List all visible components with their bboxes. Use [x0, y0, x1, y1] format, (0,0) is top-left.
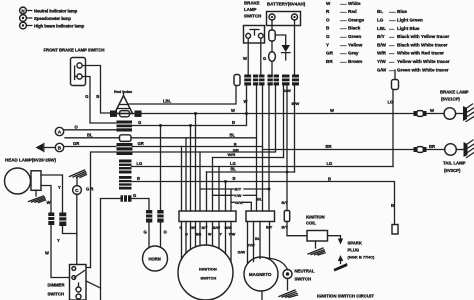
connector c6 [292, 75, 299, 86]
connector pill at triangle base [120, 111, 130, 117]
svg-text:----: ---- [389, 34, 395, 39]
connector right of triangle base [135, 111, 142, 117]
svg-text:B: B [233, 176, 236, 181]
svg-text:BR: BR [326, 144, 332, 149]
svg-text:Y/W: Y/W [234, 193, 242, 198]
svg-text:W/R: W/R [228, 152, 236, 157]
wire color code legend column 1 [326, 1, 365, 64]
brake lamp bulb [444, 108, 456, 120]
node dot B/Y-c4 [268, 188, 271, 191]
svg-text:B/Y: B/Y [202, 226, 209, 230]
lamp head lamp 6V25-25W [5, 158, 57, 195]
svg-text:B: B [328, 176, 331, 181]
wire GR row right [133, 146, 263, 148]
svg-text:Blue: Blue [397, 9, 407, 14]
svg-text:BL: BL [230, 132, 236, 137]
svg-text:W: W [208, 233, 212, 237]
fuse F1 [269, 30, 275, 41]
svg-text:IGNITION: IGNITION [199, 267, 217, 272]
svg-text:Black: Black [348, 26, 361, 31]
lamp speedometer legend symbol [20, 15, 72, 22]
wire arc magneto to neutral switch [267, 258, 288, 270]
svg-text:LG: LG [388, 100, 394, 105]
spark plug label [348, 241, 376, 260]
svg-text:O: O [164, 230, 168, 235]
svg-text:Yellow with White tracer: Yellow with White tracer [397, 59, 450, 64]
wire horn B branch [160, 126, 162, 211]
horn body [143, 246, 168, 271]
wire diode branch [275, 35, 286, 45]
ignition switch body [178, 245, 233, 300]
spark plug arrow and ground [334, 255, 348, 272]
connector W headlamp lead [48, 213, 54, 226]
wire trunk v3 [190, 126, 192, 212]
wire B from front brake switch to red-index row [82, 66, 110, 114]
svg-text:B: B [137, 176, 140, 181]
svg-text:BATTERY(6V4AH): BATTERY(6V4AH) [267, 1, 306, 6]
svg-text:B/W: B/W [377, 42, 387, 47]
connector horn B [157, 210, 163, 223]
node dot B-trunk [224, 180, 227, 183]
svg-text:SWITCH: SWITCH [48, 292, 65, 297]
wire G/W row [231, 202, 251, 211]
svg-text:B/Y: B/Y [266, 226, 273, 230]
svg-text:W: W [243, 56, 247, 61]
svg-text:O: O [326, 17, 330, 22]
svg-text:R: R [180, 226, 183, 230]
wire color code legend column 2 [377, 9, 450, 72]
svg-text:BR: BR [429, 144, 435, 149]
svg-text:-----: ----- [340, 26, 347, 31]
svg-text:Y/W: Y/W [377, 59, 386, 64]
svg-text:G: G [85, 94, 88, 99]
connector c4 double [268, 75, 280, 86]
lamp high beam indicator symbol [36, 144, 56, 152]
svg-text:W: W [430, 108, 434, 113]
svg-text:Y: Y [57, 238, 60, 243]
wire trunk v8 [218, 167, 220, 212]
connector bar ignition switch [179, 211, 236, 222]
wire LG vertical right [392, 90, 394, 167]
svg-text:(NGK B 77HC): (NGK B 77HC) [348, 255, 376, 260]
wire W to brake lamp [427, 113, 445, 115]
pin labels row 2 [185, 233, 236, 237]
ignition coil T1 [306, 215, 328, 242]
svg-text:W: W [231, 108, 235, 113]
svg-text:B: B [96, 94, 99, 99]
svg-text:Speedometer lamp: Speedometer lamp [34, 16, 71, 21]
wire trunk v10 [230, 189, 232, 211]
connector W brake lamp [414, 111, 427, 117]
svg-text:Y: Y [58, 185, 61, 190]
svg-text:Gray: Gray [348, 51, 359, 56]
svg-text:High beam indicator lamp: High beam indicator lamp [34, 23, 85, 28]
wire G row left [101, 199, 121, 300]
svg-text:LAMP: LAMP [244, 7, 257, 12]
connector BL [120, 135, 132, 142]
connector left of triangle base [110, 111, 117, 117]
svg-text:LG: LG [377, 18, 384, 23]
svg-text:R: R [326, 9, 330, 14]
svg-text:O: O [75, 125, 79, 130]
svg-text:Green: Green [348, 34, 361, 39]
wire fuse to oval [271, 41, 273, 52]
svg-text:TAIL LAMP: TAIL LAMP [443, 161, 466, 166]
svg-text:(6V3CP): (6V3CP) [444, 168, 461, 173]
svg-text:HORN: HORN [149, 257, 161, 262]
connector B striped [119, 176, 132, 190]
svg-text:Orange: Orange [348, 17, 365, 22]
wire coil HT lead with arrow [328, 236, 344, 245]
svg-text:SWITCH: SWITCH [295, 277, 312, 282]
svg-text:BL: BL [377, 9, 383, 14]
svg-text:Y: Y [220, 233, 223, 237]
node B circled [55, 143, 63, 151]
wire c5L down [283, 86, 285, 158]
svg-text:BL: BL [87, 133, 93, 138]
node dot W-c2 [245, 112, 248, 115]
connector G horizontal [121, 195, 132, 201]
svg-text:G: G [263, 56, 266, 61]
svg-text:B/W: B/W [292, 101, 300, 106]
svg-text:B: B [234, 141, 237, 146]
wire dimmer lower right lead [86, 281, 101, 288]
wire trunk v4 [195, 114, 197, 212]
svg-text:DIMMER: DIMMER [48, 283, 65, 288]
svg-text:O: O [185, 233, 188, 237]
svg-text:Y/W: Y/W [229, 233, 236, 237]
svg-text:G: G [138, 120, 141, 125]
connector LG striped [119, 160, 132, 174]
svg-text:Red: Red [348, 9, 357, 14]
wire trunk v5 [199, 152, 201, 211]
wire G from front brake switch to connector [82, 77, 116, 124]
svg-text:BL: BL [257, 197, 263, 202]
wire LG bus [132, 166, 394, 168]
svg-text:BRAKE LAMP: BRAKE LAMP [440, 90, 469, 95]
svg-text:B: B [232, 120, 235, 125]
svg-text:NEUTRAL: NEUTRAL [295, 269, 315, 274]
svg-text:-----: ----- [389, 18, 396, 23]
svg-text:W/R: W/R [377, 51, 387, 56]
connector c1 [234, 75, 240, 86]
svg-text:-----: ----- [340, 34, 347, 39]
wire row172 [207, 171, 295, 173]
fuse holder oval [269, 52, 276, 62]
svg-text:A: A [58, 130, 62, 135]
svg-text:B/Y: B/Y [235, 187, 242, 192]
magneto pin wires below bar [248, 222, 270, 264]
svg-text:GR: GR [73, 141, 79, 146]
svg-text:C: C [75, 188, 79, 193]
red index marker triangle [114, 90, 133, 114]
svg-text:-----: ----- [340, 1, 347, 6]
ground neutral switch [279, 279, 298, 298]
pin labels row 1 [180, 226, 233, 230]
connector GR double [117, 143, 133, 155]
svg-text:----: ---- [389, 42, 395, 47]
svg-text:B/Y: B/Y [282, 201, 289, 205]
svg-text:HEAD LAMP(6V25·25W): HEAD LAMP(6V25·25W) [5, 158, 57, 163]
ground above C [70, 170, 87, 186]
wire battery positive lead [294, 20, 296, 75]
svg-text:-----: ----- [340, 17, 347, 22]
connector c2 [244, 75, 251, 86]
node dot B-horn branch [159, 124, 162, 127]
wire B bus [132, 182, 395, 225]
svg-text:Green with White tracer: Green with White tracer [397, 67, 449, 72]
svg-text:BL: BL [231, 167, 237, 172]
wire c6 down [294, 86, 296, 173]
svg-text:SWITCH: SWITCH [244, 13, 261, 18]
svg-text:-----: ----- [340, 42, 347, 47]
fuse F2 ignition [284, 211, 289, 222]
svg-text:White with Red tracer: White with Red tracer [397, 51, 444, 56]
switch S1 front brake lamp switch [44, 48, 105, 86]
switch S2 brake lamp switch [244, 1, 265, 43]
wire battery negative lead [271, 20, 273, 30]
svg-text:BR: BR [196, 233, 202, 237]
svg-text:BRAKE: BRAKE [244, 1, 260, 6]
svg-text:Neutral indicator lamp: Neutral indicator lamp [34, 8, 78, 13]
connector Y headlamp lead [59, 213, 66, 227]
svg-text:Black with Yellow tracer: Black with Yellow tracer [397, 34, 449, 39]
ground ignition coil [308, 241, 325, 255]
svg-text:IGNITION: IGNITION [306, 215, 325, 220]
svg-text:B/W: B/W [213, 226, 221, 230]
svg-text:N: N [21, 8, 24, 13]
svg-text:-----: ----- [340, 9, 347, 14]
svg-text:G/W: G/W [235, 200, 243, 205]
connector BR tail lamp [414, 147, 427, 153]
svg-text:LG: LG [137, 161, 143, 166]
neutral switch body [283, 269, 315, 282]
wire B/Y row [200, 188, 269, 190]
svg-text:----: ---- [389, 59, 395, 64]
dimmer switch body [48, 265, 87, 300]
svg-text:G/W: G/W [377, 67, 387, 72]
lamp N neutral indicator legend symbol [20, 7, 78, 14]
node dot B-trunk [189, 124, 192, 127]
svg-text:Black with White tracer: Black with White tracer [397, 42, 448, 47]
wire fuse to ignition coil [287, 222, 307, 236]
svg-text:PLUG: PLUG [348, 248, 360, 253]
lamp high beam indicator legend symbol [20, 22, 85, 29]
wire GR from B to connector [64, 146, 117, 148]
svg-text:BL: BL [255, 237, 261, 241]
wire W bus [111, 113, 416, 115]
svg-text:B/Y: B/Y [377, 34, 385, 39]
connector O-G double [117, 121, 133, 132]
svg-text:B: B [58, 146, 62, 151]
battery BT1 6V4AH [267, 1, 306, 25]
wire dimmer right lead [86, 267, 91, 269]
wire W/R row [213, 157, 284, 159]
wire Y lead joins C wire [63, 226, 77, 265]
wire W from head lamp to dimmer [41, 186, 51, 213]
svg-text:FRONT BRAKE LAMP SWITCH: FRONT BRAKE LAMP SWITCH [44, 48, 105, 53]
svg-text:GR: GR [326, 51, 334, 56]
node A circled [55, 127, 63, 135]
svg-text:----: ---- [389, 67, 395, 72]
svg-text:G/W: G/W [225, 226, 233, 230]
wire LBL bus [128, 86, 236, 105]
svg-text:LBL: LBL [163, 99, 172, 104]
svg-text:W: W [326, 1, 331, 6]
svg-text:-----: ----- [340, 59, 347, 64]
wire Y from head lamp to dimmer [41, 175, 63, 213]
lamp tail lamp 6V3CP label [443, 161, 466, 174]
tail lamp bulb [445, 144, 457, 156]
wire c5R down to fuse [286, 86, 288, 211]
wire trunk v9 [225, 182, 227, 212]
wire O from A to connector [64, 129, 117, 131]
svg-text:Y/W: Y/W [248, 244, 256, 248]
svg-text:BR: BR [326, 59, 333, 64]
wire oval to connector [271, 61, 273, 74]
wire G row right [132, 199, 150, 211]
svg-text:W: W [330, 108, 334, 113]
wire BR row to tail lamp [263, 149, 416, 151]
svg-text:W: W [45, 251, 49, 256]
wire BL row left [65, 137, 120, 139]
svg-text:G: G [133, 193, 136, 198]
wire trunk v2 [185, 138, 187, 211]
magneto body [244, 257, 278, 291]
svg-text:LBL: LBL [377, 26, 386, 31]
svg-text:B: B [326, 26, 330, 31]
ground tail lamp [456, 140, 474, 158]
node dot W-trunk [194, 112, 197, 115]
connector c5 [282, 75, 290, 86]
diode D1 [282, 45, 291, 60]
svg-text:Light Blue: Light Blue [397, 26, 420, 31]
svg-text:B: B [391, 203, 394, 208]
wire trunk v6 [206, 172, 208, 211]
wire from C down [76, 194, 78, 235]
svg-text:MAGNETO: MAGNETO [249, 272, 272, 277]
svg-text:-----: ----- [389, 9, 396, 14]
connector bar magneto [246, 211, 275, 222]
svg-text:(6V21CP): (6V21CP) [441, 97, 460, 102]
svg-text:G/W: G/W [238, 251, 246, 255]
wire W lead to dimmer [51, 225, 70, 278]
wire trunk v7 [212, 158, 214, 212]
svg-text:W: W [47, 200, 51, 205]
connector B end [392, 225, 398, 235]
wire BR to tail lamp [427, 149, 445, 151]
svg-text:LG: LG [327, 161, 333, 166]
svg-text:COIL: COIL [306, 221, 316, 226]
wire trunk v1 [181, 147, 183, 212]
connector horn G [146, 210, 152, 223]
wire c3L down to magneto bar [256, 86, 258, 212]
wire BL row right [131, 137, 257, 139]
svg-text:GR: GR [138, 141, 144, 146]
wire G-B row [132, 86, 247, 126]
wire horn G lead [148, 223, 150, 248]
wire Y/W row [213, 194, 257, 196]
wire brake switch G lead [260, 38, 262, 74]
svg-text:Brown: Brown [348, 59, 362, 64]
svg-text:Yellow: Yellow [348, 42, 363, 47]
node C circled [73, 186, 82, 195]
svg-text:----: ---- [389, 51, 395, 56]
svg-text:SWITCH: SWITCH [201, 276, 217, 281]
wire c3R down to magneto bar [262, 86, 264, 212]
svg-text:G: G [144, 230, 147, 235]
svg-text:GR: GR [191, 226, 197, 230]
wire c4L down to magneto bar [268, 86, 270, 212]
wire horn B lead [160, 223, 162, 248]
ground below head lamp [29, 190, 46, 202]
svg-text:-----: ----- [340, 51, 347, 56]
svg-text:LG: LG [230, 161, 236, 166]
wire magneto bottom lead [261, 291, 263, 300]
ignition switch pin wires below bar [182, 222, 232, 263]
ground brake lamp [456, 104, 474, 122]
connector LG top right [392, 70, 399, 90]
svg-text:Light Green: Light Green [397, 18, 423, 23]
svg-text:G R: G R [86, 187, 93, 192]
svg-text:----: ---- [389, 26, 395, 31]
lamp brake lamp 6V21CP [440, 90, 469, 102]
svg-text:SPARK: SPARK [348, 241, 362, 246]
svg-text:White: White [348, 1, 361, 6]
wire row152 [91, 86, 276, 268]
wire brake switch W lead [247, 38, 249, 74]
svg-text:Y: Y [326, 42, 329, 47]
connector c3 double [253, 75, 265, 86]
svg-text:G: G [326, 34, 330, 39]
svg-text:IGNITION SWITCH CIRCUIT: IGNITION SWITCH CIRCUIT [317, 294, 374, 299]
node dot fuse-row172 [286, 171, 289, 174]
